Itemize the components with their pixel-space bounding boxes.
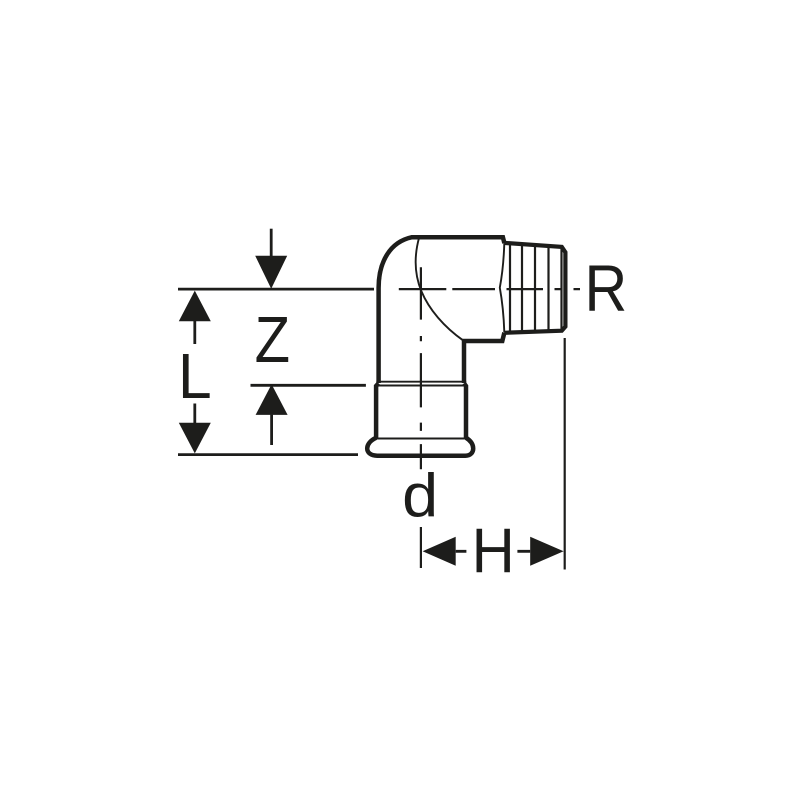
H extension left (centerline continuation) [420, 527, 422, 568]
dimension line top (reference at axis) [178, 288, 374, 291]
fitting outline: elbow body [379, 237, 505, 383]
male thread profile [504, 243, 565, 333]
socket shoulder thin line [376, 385, 466, 387]
press bead [367, 438, 473, 456]
Z arrow stem bottom [270, 415, 273, 445]
dimension line L bottom [178, 453, 358, 456]
svg-text:d: d [402, 462, 438, 530]
L arrow stem bottom [193, 404, 196, 424]
arrowhead L up [179, 291, 211, 322]
svg-text:R: R [584, 252, 627, 326]
arrowhead Z up [256, 384, 288, 415]
arrowhead L down [179, 423, 211, 454]
thread transition curve [500, 244, 505, 333]
H extension right [564, 338, 566, 570]
thread crest lines [510, 243, 562, 332]
L arrow stem top [193, 321, 196, 344]
Z arrow stem top [270, 229, 273, 257]
socket step [376, 383, 466, 437]
arrowhead H right [530, 537, 563, 566]
bead top thin line [375, 438, 468, 440]
H dimension stems [456, 550, 531, 553]
sphere silhouette curve [416, 237, 464, 340]
arrowhead H left [423, 537, 456, 566]
vertical centerline [420, 267, 422, 469]
arrowhead Z down [255, 256, 287, 289]
socket mouth thin line [376, 381, 466, 383]
svg-text:H: H [472, 516, 515, 587]
svg-text:Z: Z [255, 304, 290, 377]
dimension line Z bottom [251, 384, 366, 387]
svg-text:L: L [178, 342, 212, 413]
horizontal centerline [399, 288, 580, 290]
